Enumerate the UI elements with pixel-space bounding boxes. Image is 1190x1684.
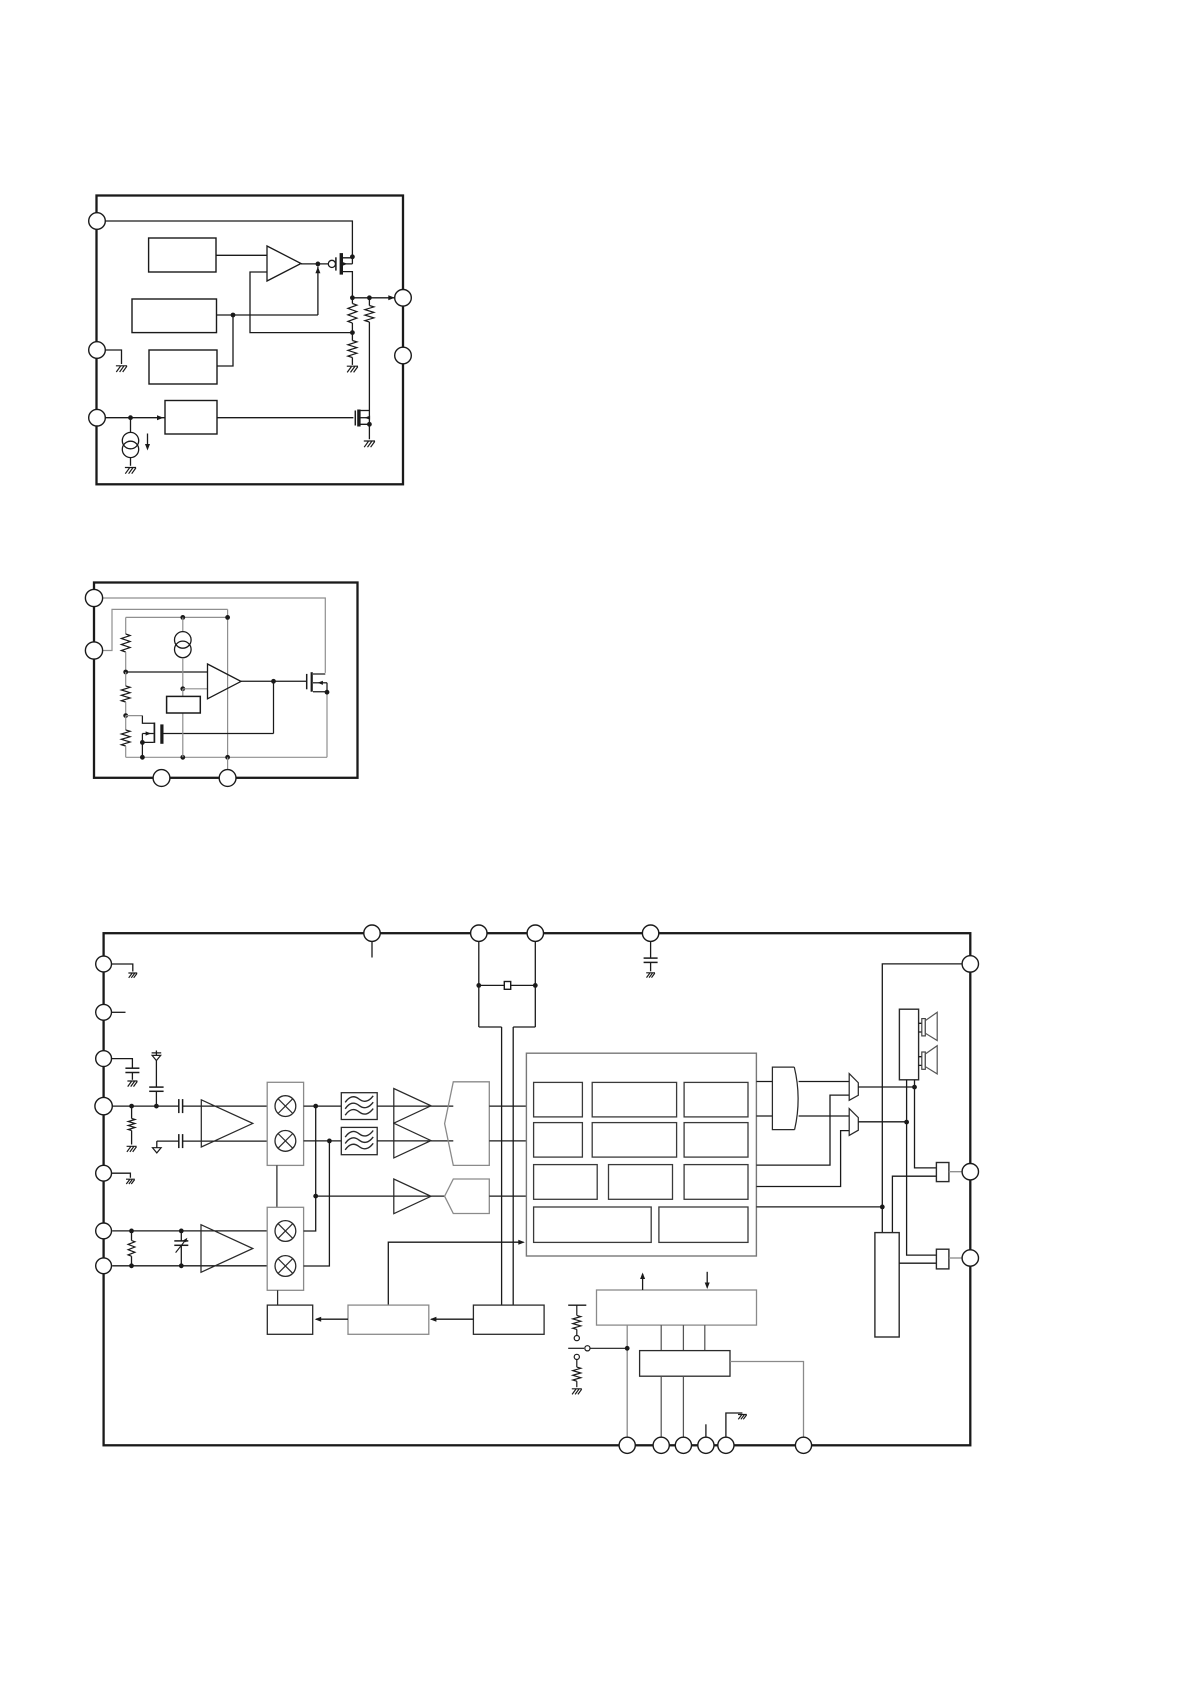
ground under C5	[646, 973, 655, 978]
resistor R1	[351, 298, 353, 304]
pin C of block 2	[153, 770, 170, 787]
speaker 1 link lines	[919, 1023, 922, 1032]
analog ground symbol lower branch	[156, 1141, 158, 1148]
DSP main block outline	[526, 1053, 756, 1256]
wire pin A along top to PMOS drain	[103, 598, 326, 673]
resistor RB on left rail	[121, 686, 130, 702]
pin B5	[718, 1437, 734, 1453]
mux trapezoid 1	[849, 1074, 858, 1101]
inductor across FM inputs	[131, 1231, 133, 1241]
wire pin T4 to capacitor C5	[650, 941, 652, 958]
amplifier A4	[394, 1123, 431, 1158]
ground under NMOS Q2	[364, 441, 375, 447]
wire filter F1 to combiner	[377, 1105, 453, 1107]
supply terminal bar	[568, 1304, 586, 1306]
mixer M3	[275, 1221, 296, 1242]
wire combiner 1 output a to DSP	[489, 1105, 526, 1107]
amplifier A5	[394, 1179, 431, 1214]
wire DSP to mux 2 lower input	[756, 1131, 849, 1187]
PLL box	[348, 1305, 429, 1334]
variable capacitor arrow	[176, 1239, 187, 1253]
ground under C1	[127, 1081, 137, 1087]
NMOS Q2 arrow stub	[361, 417, 370, 419]
output node dots	[350, 295, 355, 300]
wire DSP right stub to bus	[756, 1206, 882, 1208]
wire B3 output up to B2 output line	[217, 315, 233, 366]
audio interface box	[899, 1009, 918, 1080]
crystal X1	[504, 982, 510, 990]
arrow PLL to LO buffer	[316, 1318, 348, 1320]
arrow up into op-amp output node	[315, 267, 320, 274]
ground at pin B5	[738, 1415, 747, 1420]
DSP sub-block K	[659, 1207, 748, 1242]
RF amplifier A1	[201, 1100, 253, 1147]
pin T1	[364, 925, 380, 941]
IC outline box 2	[94, 583, 358, 778]
mixer M1	[275, 1096, 296, 1117]
down arrow above control box	[706, 1272, 708, 1288]
PMOS QB source stub to bottom rail	[313, 683, 327, 692]
wire lens to mux 1	[799, 1081, 850, 1083]
link connector 1 to pin R2	[949, 1171, 963, 1173]
pin 4 of block 1	[395, 290, 412, 307]
wire amp block to connector 1 lower	[892, 1176, 936, 1232]
ground at pin L1	[128, 973, 137, 978]
internal block B4	[165, 401, 217, 435]
internal block B1	[149, 238, 216, 272]
connector box 2	[936, 1249, 949, 1269]
arrow oscillator to PLL	[431, 1318, 473, 1320]
wire VCO to DSP with arrow	[388, 1242, 523, 1305]
pin L7	[96, 1258, 112, 1274]
junction dot mux 1 output	[912, 1085, 917, 1090]
stub at pin B4	[705, 1424, 707, 1437]
junction dot IF bus 2	[327, 1139, 332, 1144]
wire mirror tap to NMOS QA drain	[126, 715, 143, 717]
pin R3	[962, 1250, 978, 1266]
mixer M4	[275, 1256, 296, 1277]
pin L4	[95, 1097, 112, 1114]
link control to logic box 3	[704, 1325, 706, 1351]
wire pin L3 to capacitor	[112, 1059, 133, 1069]
variable capacitor across FM inputs	[180, 1231, 182, 1241]
capacitor C5 to ground	[644, 957, 658, 959]
IC outline box	[97, 196, 404, 485]
switch lever bar	[568, 1347, 584, 1349]
FM input wire 2 from pin L7	[112, 1265, 267, 1267]
pin T4	[642, 925, 658, 941]
junction dots on RF wire 1	[129, 1104, 134, 1109]
ground under RS2	[572, 1389, 582, 1395]
junction dot IF bus 1	[313, 1104, 318, 1109]
NMOS Q2 drain stub	[361, 410, 370, 412]
mixer M2	[275, 1131, 296, 1152]
PMOS Q1 gate bar	[335, 257, 337, 270]
resistor R2	[368, 298, 370, 306]
junction dot on output	[271, 679, 276, 684]
wire output line 1 down to connector 1	[915, 1087, 937, 1168]
rail 2 horizontal	[126, 616, 228, 618]
wire DSP to mux 1 lower input	[756, 1095, 849, 1165]
power amplifier block	[875, 1233, 899, 1337]
pin B of block 2	[85, 642, 102, 659]
connector box 1	[936, 1163, 949, 1182]
wire control box to pin B1	[626, 1325, 628, 1437]
DSP sub-block I	[684, 1165, 748, 1200]
up arrow above control box	[642, 1274, 644, 1290]
pin L6	[96, 1223, 112, 1239]
ground under current source	[125, 468, 136, 474]
internal block BB	[167, 696, 201, 713]
op-amp U1	[267, 246, 301, 281]
wire R2 down to NMOS drain	[368, 322, 370, 411]
filter F1 wave symbol	[345, 1096, 373, 1103]
IC outline box 3	[104, 933, 971, 1445]
wire pin B up and right (rail 1)	[103, 609, 228, 650]
DSP sub-block B	[592, 1082, 676, 1117]
wire mux 2 output	[858, 1121, 906, 1123]
junction dots rail 2	[180, 615, 185, 620]
DSP sub-block C	[684, 1082, 748, 1117]
crystal leg 1	[479, 941, 502, 1305]
left rail middle segment	[125, 672, 127, 686]
pin A of block 2	[85, 589, 102, 606]
PMOS QB gate bar	[306, 674, 308, 689]
junction dot mux 2 output	[904, 1120, 909, 1125]
speaker 2 horn	[925, 1046, 937, 1074]
wire bottom rail to pin D	[227, 757, 229, 769]
crystal connecting wire	[479, 984, 536, 986]
resistor RA on left rail	[121, 634, 130, 652]
wire logic box to pin B3	[682, 1376, 684, 1437]
pin B6	[795, 1437, 811, 1453]
wire output node to pin 4 with arrow	[352, 297, 394, 299]
resistor R3 to ground	[351, 333, 353, 341]
current source direction arrow	[147, 434, 149, 449]
bottom rail	[126, 756, 327, 758]
wire current source through block down to rail	[182, 689, 184, 758]
pin B4	[698, 1437, 714, 1453]
NMOS QA source arrow stub	[142, 733, 153, 735]
wire output line 2 down to connector 2	[907, 1122, 937, 1255]
PMOS QB source arrow stub	[313, 682, 327, 684]
pin L1	[96, 956, 112, 972]
PMOS QB channel bar	[311, 672, 313, 692]
analog ground symbol top (antenna branch)	[152, 1051, 162, 1056]
oscillator box	[473, 1305, 544, 1334]
crystal leg 2	[513, 941, 535, 1305]
wire antenna branch down to capacitor C2	[155, 1061, 157, 1088]
RF wire 2 continues to mixer box	[183, 1140, 268, 1142]
wire pin B5 to ground	[726, 1413, 743, 1437]
pin 1 of block 1	[89, 213, 106, 230]
wire audio box to output line 1	[914, 1080, 916, 1087]
IF bus vertical 2	[304, 1141, 330, 1266]
feedback wire from resistor node to inverting input	[250, 272, 352, 333]
wire tap to op-amp inverting input	[183, 688, 208, 690]
speaker 1 magnet bar	[922, 1019, 926, 1036]
combiner pentagon 2	[445, 1179, 490, 1214]
right vertical rail down to bottom	[227, 609, 229, 757]
wire B2 output to gate node	[217, 267, 318, 316]
stub at pin T1	[371, 941, 373, 957]
pin T3	[527, 925, 543, 941]
left rail top segment	[125, 617, 127, 634]
current source I1	[130, 418, 132, 433]
junction dot noninverting tap	[123, 670, 128, 675]
NMOS Q2 source stub with dot	[361, 411, 370, 440]
series capacitor C4 on RF wire 2	[178, 1134, 180, 1148]
op-amp UA	[208, 664, 242, 699]
RF wire 2 stub to capacitor C4	[157, 1140, 179, 1142]
control interface box	[597, 1290, 757, 1325]
RF input wire 1 from pin L4	[112, 1105, 179, 1107]
internal block B2	[132, 299, 217, 333]
pull-down resistor RS2	[576, 1360, 578, 1368]
DSP sub-block D	[534, 1123, 583, 1158]
wire B1 output to op-amp noninverting input	[216, 254, 267, 256]
capacitor C1 to ground	[125, 1067, 139, 1069]
switch pole contact	[585, 1346, 590, 1351]
ground at pin L5	[126, 1179, 135, 1184]
ground at pin 2	[116, 366, 127, 372]
DAC lens block	[772, 1067, 798, 1130]
PMOS Q1 drain stub to output node	[343, 272, 353, 298]
PMOS Q1 gate bubble	[328, 260, 335, 267]
PMOS QB drain stub	[313, 673, 325, 675]
DSP sub-block J	[534, 1207, 652, 1242]
link control to logic box 2	[682, 1325, 684, 1351]
DSP sub-block H	[609, 1165, 673, 1200]
pin R2	[962, 1164, 978, 1180]
junction dots FM wires	[129, 1229, 134, 1234]
resistor RC on left rail	[121, 730, 130, 746]
junction dot mirror tap	[123, 713, 128, 718]
mixer box 2	[267, 1207, 303, 1290]
filter F2	[341, 1127, 377, 1154]
PMOS Q1 arrow	[342, 262, 348, 266]
wire pin R1 bus down the middle	[882, 964, 962, 1233]
junction dot R1/R3/feedback	[350, 330, 355, 335]
switch common wire	[590, 1347, 627, 1349]
IF bus vertical 1	[304, 1106, 316, 1231]
wire lens to mux 2	[799, 1115, 850, 1117]
link mixer box 1 to mixer box 2	[276, 1165, 278, 1207]
wire amp block to connector 2 lower	[899, 1262, 936, 1264]
wire filter F2 to combiner	[377, 1140, 453, 1142]
filter F1	[341, 1093, 377, 1120]
wire B4 output to NMOS gate	[217, 417, 353, 419]
series capacitor C3 on RF wire 1	[178, 1099, 180, 1113]
switch upper contact	[574, 1336, 579, 1341]
PMOS Q1 source stub with dot	[343, 257, 353, 264]
junction dot at amp C input	[313, 1194, 318, 1199]
stub at pin L2	[112, 1011, 126, 1013]
wire C2 to RF input line	[155, 1091, 157, 1106]
FM amplifier A2	[201, 1225, 253, 1273]
pin 2 of block 1	[89, 342, 106, 359]
wire DSP to DAC lens bottom	[756, 1115, 772, 1117]
amplifier A3	[394, 1089, 431, 1124]
wire logic box to pin B2	[660, 1376, 662, 1437]
ground under R3	[347, 366, 358, 372]
pin T2	[471, 925, 487, 941]
wire pin L5 to ground	[112, 1173, 131, 1178]
capacitor C2 in antenna branch	[149, 1086, 163, 1088]
wire pin 2 to ground	[105, 350, 121, 364]
wire audio box to output line 2	[906, 1080, 908, 1122]
wire mux 1 output	[858, 1086, 914, 1088]
combiner pentagon 1	[445, 1082, 490, 1166]
link connector 2 to pin R3	[949, 1257, 963, 1259]
speaker 2 magnet bar	[922, 1052, 926, 1069]
filter F2 wave symbol	[345, 1131, 373, 1138]
left rail lower segment	[125, 716, 127, 730]
link mixer box 2 to LO buffer	[277, 1290, 279, 1305]
bottom rail junction dots	[140, 755, 145, 760]
pin 3 of block 1	[89, 409, 106, 426]
ground under inductor	[127, 1146, 137, 1152]
wire combiner 2 output to DSP	[489, 1195, 526, 1197]
pin B3	[675, 1437, 691, 1453]
wire pin L1 to ground	[112, 964, 133, 972]
logic box	[640, 1351, 730, 1377]
op-amp output wire to PMOS QB gate	[241, 680, 307, 682]
wire DSP to DAC lens top	[756, 1081, 772, 1083]
mixer M1 output to filter F1	[304, 1105, 342, 1107]
DSP sub-block E	[592, 1123, 676, 1158]
pin L5	[96, 1165, 112, 1181]
feedback wire down and left to QA gate line	[273, 681, 275, 733]
inductor L to ground on RF input	[131, 1106, 133, 1118]
PMOS Q1 channel bar	[340, 253, 343, 275]
pull-up resistor RS1	[576, 1305, 578, 1315]
pin L2	[96, 1004, 112, 1020]
NMOS QA channel bar	[153, 723, 155, 743]
wire pin 3 to block B4 with arrow	[105, 417, 165, 419]
mixer M2 output to filter F2	[304, 1140, 342, 1142]
DSP sub-block G	[534, 1165, 598, 1200]
mixer box 1	[267, 1082, 303, 1165]
NMOS QA source stub and dot	[142, 734, 153, 758]
pin B1	[619, 1437, 635, 1453]
junction dot on op-amp output	[316, 262, 321, 267]
junction dot switch line	[625, 1346, 630, 1351]
LO buffer box	[267, 1305, 312, 1334]
link control to logic box 1	[660, 1325, 662, 1351]
switch lower contact	[574, 1354, 579, 1359]
wire combiner 1 output b to DSP	[489, 1140, 526, 1142]
pin R1	[962, 956, 978, 972]
current source IA	[182, 617, 184, 631]
wire logic box to pin B6	[730, 1362, 804, 1438]
pin B2	[653, 1437, 669, 1453]
speaker 1 horn	[925, 1012, 937, 1040]
pin D of block 2	[219, 770, 236, 787]
wire to amplifier A5	[316, 1195, 445, 1197]
gate line QA to feedback node	[164, 733, 274, 735]
internal block B3	[149, 350, 217, 384]
speaker 2 link lines	[919, 1057, 922, 1066]
junction dot inverting tap	[180, 686, 185, 691]
NMOS Q2 channel bar	[357, 410, 360, 427]
FM input wire 1 from pin L6	[112, 1230, 267, 1232]
DSP sub-block F	[684, 1123, 748, 1158]
junction dot current source tap	[128, 415, 133, 420]
pin 5 of block 1	[395, 347, 412, 364]
wire op-amp output to PMOS gate	[301, 263, 328, 265]
wire from pin 1 along top to PMOS source	[105, 221, 352, 257]
RF wire 1 continues to mixer box	[183, 1105, 268, 1107]
DSP sub-block A	[534, 1082, 583, 1117]
mux trapezoid 2	[849, 1109, 858, 1136]
wire tap to op-amp noninverting input	[126, 671, 208, 673]
NMOS Q2 gate bar	[354, 411, 356, 426]
NMOS QA gate plate	[160, 724, 163, 743]
pin L3	[96, 1051, 112, 1067]
node dot on B2 output	[231, 313, 236, 318]
junction dot on bus at DSP stub	[880, 1205, 885, 1210]
